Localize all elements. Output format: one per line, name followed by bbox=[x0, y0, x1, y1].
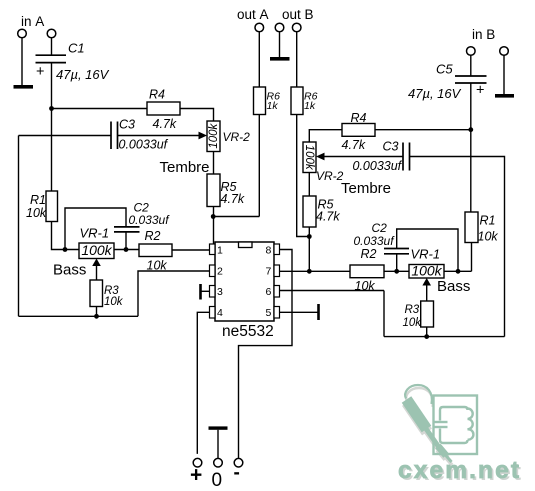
node out A terminal bbox=[255, 23, 264, 32]
label R6 value 1k (A) bbox=[267, 100, 279, 112]
label in B bbox=[472, 27, 495, 42]
resistor R3 (left) bbox=[90, 280, 103, 307]
svg-text:4: 4 bbox=[217, 307, 223, 319]
wire R1 bottom (right) bbox=[471, 243, 473, 272]
node output ground terminal bbox=[275, 23, 284, 32]
potentiometer VR-2 (right) bbox=[303, 142, 316, 173]
wire pin 7 to R2 (right) bbox=[280, 270, 351, 272]
svg-text:0.0033uf: 0.0033uf bbox=[353, 159, 403, 173]
svg-text:1: 1 bbox=[217, 245, 223, 257]
wire ground rail (right) bbox=[384, 336, 505, 338]
wire C2 loop (right) bbox=[397, 229, 458, 271]
svg-text:4.7k: 4.7k bbox=[316, 210, 340, 224]
wire pin 6 to rail riser (right) bbox=[280, 290, 385, 292]
pin number 5 bbox=[266, 307, 272, 319]
svg-text:+: + bbox=[36, 64, 44, 80]
svg-text:10k: 10k bbox=[104, 296, 124, 308]
wire junction to R4 (right) bbox=[375, 129, 471, 131]
label R1 value 10k (right) bbox=[478, 230, 499, 244]
pin number 6 bbox=[266, 286, 272, 298]
wiper arrow VR-1 (right) bbox=[422, 278, 431, 301]
pin 6 box bbox=[274, 286, 280, 298]
svg-text:2: 2 bbox=[217, 266, 223, 278]
svg-text:C3: C3 bbox=[119, 118, 135, 132]
node in B signal terminal bbox=[467, 47, 476, 56]
logo shadow bbox=[406, 388, 452, 465]
label C5 polarity + bbox=[476, 83, 484, 99]
label VR-1 (left) bbox=[80, 226, 110, 241]
wire C5 to R1 (right, through node) bbox=[470, 83, 472, 212]
node - supply terminal bbox=[234, 458, 243, 467]
resistor R2 (left) bbox=[139, 244, 172, 257]
logo soldering iron cord bbox=[405, 385, 432, 404]
svg-text:in B: in B bbox=[472, 27, 495, 42]
svg-text:C1: C1 bbox=[68, 41, 85, 56]
wire VR-1 to R2 (left) bbox=[114, 249, 139, 251]
svg-text:VR-1: VR-1 bbox=[411, 247, 441, 262]
wire pin 4 to + terminal bbox=[197, 312, 209, 454]
wire VR-2 to R5 (left) bbox=[213, 152, 215, 175]
wire in A ground terminal down bbox=[21, 38, 23, 85]
label VR-2 (right) bbox=[316, 169, 344, 183]
wire pin 3 stub bbox=[201, 290, 210, 292]
resistor R2 (right) bbox=[350, 265, 384, 278]
svg-text:out B: out B bbox=[282, 7, 314, 22]
pin 3 box bbox=[210, 286, 216, 298]
label R5 (right) bbox=[318, 198, 334, 212]
label C1 value 47u 16V bbox=[56, 67, 110, 82]
label C1 polarity + bbox=[36, 64, 44, 80]
svg-text:C2: C2 bbox=[372, 221, 388, 235]
label R3 value 10k (right) bbox=[403, 317, 423, 329]
wire VR-1 to R1 (right) bbox=[444, 270, 472, 272]
label C3 value 0.0033uf (right) bbox=[353, 159, 403, 173]
label C2 (right) bbox=[372, 221, 388, 235]
wire C2 loop (left) bbox=[65, 208, 126, 250]
potentiometer VR-1 (left) bbox=[79, 242, 114, 259]
capacitor C2 (left) bbox=[114, 227, 140, 232]
node junction C2/R2/VR-1 (right) bbox=[394, 269, 399, 274]
svg-text:3: 3 bbox=[217, 286, 223, 298]
svg-text:47µ, 16V: 47µ, 16V bbox=[56, 67, 110, 82]
svg-text:R1: R1 bbox=[30, 193, 46, 207]
node junction R3/rail (right) bbox=[424, 334, 429, 339]
node junction R5/R6 (left) bbox=[211, 214, 216, 219]
svg-text:Tembre: Tembre bbox=[160, 159, 210, 176]
svg-text:4.7k: 4.7k bbox=[153, 117, 177, 131]
pin 5 stub bar bbox=[317, 304, 320, 320]
logo inductor-capacitor circuit bbox=[434, 407, 473, 443]
ground (in A) bbox=[14, 85, 34, 89]
wire in B terminal to C5 bbox=[470, 55, 472, 76]
wire C2 to VR-1/R2 junction (left) bbox=[125, 232, 127, 250]
pin 3 stub bar bbox=[199, 284, 202, 300]
node junction R5/pin7 (right) bbox=[307, 269, 312, 274]
svg-text:Tembre: Tembre bbox=[341, 180, 391, 197]
pin number 2 bbox=[217, 266, 223, 278]
label C2 value 0.033uf (left) bbox=[129, 213, 171, 227]
label R4 (left) bbox=[149, 88, 165, 102]
wire R6A down to junction bbox=[258, 115, 260, 217]
svg-text:+: + bbox=[476, 83, 484, 99]
label C3 (left) bbox=[119, 118, 135, 132]
label C3 (right) bbox=[383, 140, 399, 154]
label Bass (right) bbox=[437, 278, 470, 295]
svg-text:100k: 100k bbox=[81, 242, 112, 258]
label Bass (left) bbox=[53, 262, 86, 279]
label Tembre (left) bbox=[160, 159, 210, 176]
svg-text:4.7k: 4.7k bbox=[342, 138, 366, 152]
label C5 bbox=[436, 62, 453, 77]
wire R1 bottom to VR-1 (left) bbox=[52, 222, 80, 250]
wire R4 to VR-2 top (left) bbox=[180, 109, 214, 122]
wire 0 terminal to ground bbox=[217, 430, 219, 459]
svg-text:1k: 1k bbox=[267, 100, 279, 112]
logo document frame bbox=[434, 396, 478, 455]
node junction C2/VR-1/R2 (left) bbox=[124, 247, 129, 252]
wire out B to R6B bbox=[296, 32, 298, 87]
svg-text:Bass: Bass bbox=[53, 262, 86, 279]
pin number 1 bbox=[217, 245, 223, 257]
logo soldering iron bbox=[407, 400, 452, 463]
node junction R3/rail (left) bbox=[94, 314, 99, 319]
label ne5532 bbox=[222, 323, 274, 340]
node junction R5/R6 (right) bbox=[307, 234, 312, 239]
pin 5 box bbox=[274, 307, 280, 319]
label R4 value 4.7k (left) bbox=[153, 117, 177, 131]
label R1 (right) bbox=[480, 214, 496, 228]
label R3 value 10k (left) bbox=[104, 296, 124, 308]
wire R3 to ground rail (right) bbox=[426, 327, 428, 337]
label 0 bbox=[212, 470, 223, 491]
capacitor C2 (right) bbox=[384, 249, 409, 254]
pin 1 box bbox=[210, 244, 216, 255]
svg-text:0.033uf: 0.033uf bbox=[354, 234, 396, 248]
node in A signal terminal bbox=[47, 29, 56, 38]
svg-text:7: 7 bbox=[266, 266, 272, 278]
pin number 4 bbox=[217, 307, 223, 319]
label R3 (left) bbox=[104, 285, 119, 297]
label R3 (right) bbox=[405, 304, 420, 316]
node out B terminal bbox=[292, 23, 301, 32]
pin number 3 bbox=[217, 286, 223, 298]
label R4 (right) bbox=[351, 111, 367, 125]
svg-text:0: 0 bbox=[212, 470, 223, 491]
pin 8 box bbox=[274, 244, 280, 255]
svg-text:100k: 100k bbox=[303, 145, 315, 171]
label out A bbox=[237, 7, 269, 22]
svg-text:R4: R4 bbox=[351, 111, 367, 125]
pin number 8 bbox=[266, 245, 272, 257]
wire pin 8 to - terminal bbox=[239, 250, 293, 459]
label in A bbox=[21, 14, 44, 29]
label R6 (B) bbox=[304, 91, 318, 103]
wire R3 to ground rail (left) bbox=[96, 307, 98, 317]
label Tembre (right) bbox=[341, 180, 391, 197]
label R2 (left) bbox=[145, 229, 161, 243]
ground (in B) bbox=[495, 94, 514, 98]
logo text cxem.net bbox=[398, 457, 521, 486]
wire rail riser to pin 6 (right) bbox=[383, 291, 385, 337]
svg-text:C3: C3 bbox=[383, 140, 399, 154]
resistor R5 (right) bbox=[303, 196, 316, 227]
svg-text:8: 8 bbox=[266, 245, 272, 257]
label VR-2 (left) bbox=[223, 130, 251, 144]
potentiometer VR-1 (right) bbox=[409, 263, 444, 279]
svg-text:C5: C5 bbox=[436, 62, 453, 77]
wire out A to R6A bbox=[258, 32, 260, 87]
label C3 value 0.0033uf (left) bbox=[119, 138, 169, 152]
op-amp U1 ne5532 body bbox=[215, 242, 274, 321]
wire left rail vertical bbox=[18, 136, 20, 317]
label C5 value 47u 16V bbox=[408, 86, 462, 101]
svg-text:R2: R2 bbox=[145, 229, 161, 243]
wire R4 to VR-2 top (right) bbox=[309, 130, 342, 142]
svg-text:0.033uf: 0.033uf bbox=[129, 213, 171, 227]
capacitor C3 (left) bbox=[111, 122, 118, 150]
wire R2 to pin 1 bbox=[172, 249, 210, 251]
label C2 (left) bbox=[134, 201, 150, 215]
label R5 value 4.7k (right) bbox=[316, 210, 340, 224]
pin number 7 bbox=[266, 266, 272, 278]
label R2 value 10k (right) bbox=[355, 279, 376, 293]
svg-text:4.7k: 4.7k bbox=[221, 192, 245, 206]
svg-text:100k: 100k bbox=[411, 263, 442, 279]
pin 4 box bbox=[210, 307, 216, 319]
label C2 value 0.033uf (right) bbox=[354, 234, 396, 248]
resistor R1 (right) bbox=[465, 212, 478, 243]
label R6 value 1k (B) bbox=[304, 100, 316, 112]
svg-text:in A: in A bbox=[21, 14, 44, 29]
ground (output) bbox=[270, 57, 290, 61]
resistor R4 (left) bbox=[147, 102, 180, 115]
svg-text:R2: R2 bbox=[361, 247, 377, 261]
label VR-1 (right) bbox=[411, 247, 441, 262]
svg-text:10k: 10k bbox=[403, 317, 423, 329]
svg-text:6: 6 bbox=[266, 286, 272, 298]
resistor R4 (right) bbox=[342, 124, 375, 137]
svg-text:-: - bbox=[234, 463, 240, 484]
wire ground rail (left) bbox=[19, 315, 139, 317]
resistor R6 (A) bbox=[254, 87, 266, 115]
svg-text:5: 5 bbox=[266, 307, 272, 319]
svg-text:R1: R1 bbox=[480, 214, 496, 228]
svg-text:Bass: Bass bbox=[437, 278, 470, 295]
svg-text:0.0033uf: 0.0033uf bbox=[119, 138, 169, 152]
svg-text:VR-1: VR-1 bbox=[80, 226, 110, 241]
svg-text:10k: 10k bbox=[355, 279, 376, 293]
label R4 value 4.7k (right) bbox=[342, 138, 366, 152]
wire junction to R4 bbox=[52, 108, 148, 110]
wire C3 to right rail bbox=[410, 157, 505, 337]
wire C3 wiper to VR-2 with arrow (right) bbox=[316, 153, 403, 161]
wire C1 to R1 (through node) bbox=[51, 63, 53, 191]
node in A ground terminal bbox=[18, 29, 27, 38]
resistor R3 (right) bbox=[421, 301, 434, 327]
label R2 value 10k (left) bbox=[147, 259, 168, 273]
svg-text:+: + bbox=[190, 464, 202, 487]
wire C3 wiper to VR-2 with arrow (left) bbox=[118, 132, 208, 140]
wiper arrow VR-1 (left) bbox=[92, 259, 101, 281]
svg-text:R3: R3 bbox=[405, 304, 420, 316]
wire output ground terminal down bbox=[279, 32, 281, 57]
wire R6B down to junction (right) bbox=[297, 115, 310, 237]
resistor R1 (left) bbox=[46, 191, 58, 222]
pin 7 box bbox=[274, 265, 280, 277]
svg-text:47µ, 16V: 47µ, 16V bbox=[408, 86, 462, 101]
wire pin 5 stub bbox=[280, 311, 319, 313]
node + supply terminal bbox=[193, 458, 202, 467]
ground (0 supply) bbox=[209, 426, 228, 429]
wire VR-2 to R5 (right) bbox=[308, 173, 310, 197]
label + bbox=[190, 464, 202, 487]
wire junction to R6A vertical bbox=[213, 216, 259, 218]
svg-text:R4: R4 bbox=[149, 88, 165, 102]
label R5 (left) bbox=[221, 180, 237, 194]
label R2 (right) bbox=[361, 247, 377, 261]
resistor R5 (left) bbox=[207, 174, 220, 207]
wire in B ground terminal down bbox=[503, 55, 505, 94]
capacitor C5 bbox=[455, 76, 487, 83]
node 0 supply terminal bbox=[214, 458, 223, 467]
node in B ground terminal bbox=[500, 47, 509, 56]
wire R5 to pin 7 (right) bbox=[308, 227, 310, 271]
potentiometer VR-2 (left) bbox=[207, 121, 220, 152]
svg-text:10k: 10k bbox=[478, 230, 499, 244]
node junction C5/R4/R1 (right) bbox=[468, 127, 473, 132]
wire R5 to pin 1 (left) bbox=[213, 207, 215, 245]
svg-text:ne5532: ne5532 bbox=[222, 323, 274, 340]
pin 2 box bbox=[210, 265, 216, 277]
label C1 bbox=[68, 41, 85, 56]
svg-text:100k: 100k bbox=[208, 122, 220, 148]
node junction R1/VR-1/C2 loop (left) bbox=[63, 247, 68, 252]
svg-text:10k: 10k bbox=[26, 206, 47, 220]
label out B bbox=[282, 7, 314, 22]
label R1 (left) bbox=[30, 193, 46, 207]
svg-text:out A: out A bbox=[237, 7, 269, 22]
label R5 value 4.7k (left) bbox=[221, 192, 245, 206]
wire R2 to VR-1 (right) bbox=[384, 270, 409, 272]
svg-text:VR-2: VR-2 bbox=[316, 169, 344, 183]
node junction loop/R1 (right) bbox=[456, 269, 461, 274]
svg-text:VR-2: VR-2 bbox=[223, 130, 251, 144]
node junction C1/R4/R1 bbox=[49, 106, 54, 111]
svg-text:cxem.net: cxem.net bbox=[398, 457, 519, 484]
wire left rail to C3 bbox=[19, 135, 112, 137]
wire rail riser to pin 2 bbox=[138, 271, 210, 316]
label - bbox=[234, 463, 240, 484]
label R1 value 10k (left) bbox=[26, 206, 47, 220]
resistor R6 (B) bbox=[291, 87, 303, 115]
wire C2 bottom (right) bbox=[396, 254, 398, 271]
label R6 (A) bbox=[267, 91, 281, 103]
capacitor C1 bbox=[36, 55, 67, 62]
wire in A terminal to C1 bbox=[51, 38, 53, 55]
svg-text:1k: 1k bbox=[304, 100, 316, 112]
capacitor C3 (right) bbox=[403, 143, 410, 171]
